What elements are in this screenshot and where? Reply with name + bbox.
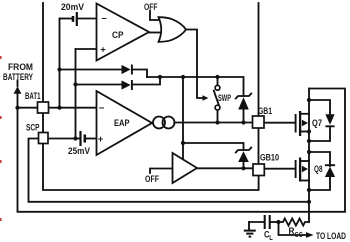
svg-text:R: R	[289, 225, 295, 236]
svg-text:OFF: OFF	[144, 1, 158, 12]
svg-text:Q8: Q8	[314, 163, 323, 174]
svg-text:CP: CP	[112, 29, 124, 40]
svg-text:TO LOAD: TO LOAD	[316, 230, 346, 241]
svg-text:−: −	[99, 103, 105, 114]
svg-text:BAT1: BAT1	[25, 90, 41, 101]
svg-text:+: +	[98, 134, 104, 145]
svg-text:−: −	[101, 14, 107, 25]
svg-text:20mV: 20mV	[61, 1, 85, 12]
svg-text:BATTERY: BATTERY	[3, 71, 34, 82]
svg-text:+: +	[100, 45, 106, 56]
svg-text:L: L	[269, 235, 273, 242]
svg-text:SWP: SWP	[218, 92, 231, 103]
svg-text:25mV: 25mV	[68, 145, 91, 156]
svg-text:SCP: SCP	[26, 122, 40, 133]
svg-text:GB1: GB1	[258, 105, 272, 116]
svg-text:EAP: EAP	[114, 117, 130, 128]
svg-text:GB10: GB10	[260, 152, 279, 163]
svg-text:OFF: OFF	[145, 173, 159, 184]
svg-text:SC: SC	[295, 232, 303, 239]
svg-text:Q7: Q7	[312, 117, 322, 128]
